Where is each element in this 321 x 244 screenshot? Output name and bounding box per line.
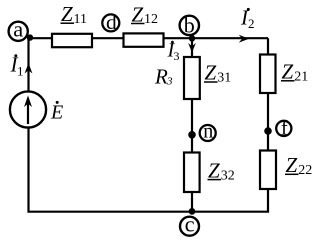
current I3 arrow	[188, 43, 196, 53]
svg-text:22: 22	[298, 163, 312, 178]
label Z22	[285, 153, 312, 178]
svg-text:c: c	[185, 212, 195, 237]
wire bottom right	[192, 189, 268, 212]
wire top: a to Z11	[29, 37, 53, 39]
svg-text:E: E	[50, 101, 63, 123]
node c	[180, 212, 199, 237]
svg-text:Z: Z	[205, 61, 217, 85]
svg-text:2: 2	[248, 16, 255, 31]
source E	[10, 91, 46, 127]
wire top: Z12 to right corner	[163, 37, 268, 39]
wire right branch between Z21 and Z22	[267, 93, 269, 151]
junction dot at a	[27, 34, 33, 40]
label I3	[167, 40, 180, 64]
label Z31	[204, 61, 231, 86]
svg-text:b: b	[184, 12, 195, 37]
svg-text:Z: Z	[286, 153, 298, 177]
wire middle branch between Z31 and Z32	[191, 99, 193, 153]
node n	[200, 120, 216, 142]
current I2 arrow	[239, 35, 249, 43]
label E	[50, 101, 63, 123]
junction dot at c	[189, 208, 196, 215]
svg-text:d: d	[106, 10, 117, 34]
resistor Z31	[184, 57, 200, 99]
label Z11	[61, 2, 87, 27]
svg-text:3: 3	[166, 75, 173, 87]
resistor Z11	[52, 34, 92, 47]
junction dot at f	[264, 127, 272, 135]
svg-text:Z: Z	[208, 158, 220, 182]
svg-text:12: 12	[144, 12, 158, 27]
svg-text:a: a	[13, 17, 23, 42]
wire middle branch lower	[191, 192, 193, 212]
node f	[276, 118, 291, 140]
label I1	[10, 53, 24, 79]
svg-text:31: 31	[217, 71, 231, 86]
wire left branch lower	[29, 128, 193, 212]
svg-text:n: n	[203, 120, 213, 142]
resistor Z12	[124, 33, 164, 46]
wire middle branch upper	[191, 38, 193, 57]
svg-text:32: 32	[221, 168, 235, 183]
wire right branch upper	[267, 38, 269, 54]
resistor Z22	[260, 151, 276, 190]
svg-text:1: 1	[17, 64, 24, 79]
label Z32	[208, 158, 235, 183]
node b	[180, 12, 199, 37]
svg-text:3: 3	[174, 49, 180, 63]
wire top: Z11 to Z12	[91, 37, 124, 39]
svg-text:R: R	[154, 65, 168, 89]
svg-text:f: f	[281, 118, 288, 140]
resistor Z32	[184, 153, 200, 193]
resistor Z21	[260, 55, 276, 94]
node a	[9, 17, 28, 42]
junction dot at b	[189, 35, 195, 41]
svg-text:21: 21	[294, 70, 308, 85]
label Z21	[281, 60, 308, 85]
label I2	[240, 5, 255, 31]
wire left branch	[27, 38, 29, 91]
node d	[102, 10, 119, 34]
label Z12	[131, 2, 158, 27]
current I1 arrow	[25, 63, 33, 74]
junction dot at n	[188, 131, 196, 139]
svg-text:Z: Z	[132, 2, 144, 26]
label R3	[154, 65, 173, 89]
svg-text:11: 11	[74, 12, 87, 27]
svg-text:Z: Z	[61, 2, 73, 26]
svg-text:Z: Z	[282, 60, 294, 84]
